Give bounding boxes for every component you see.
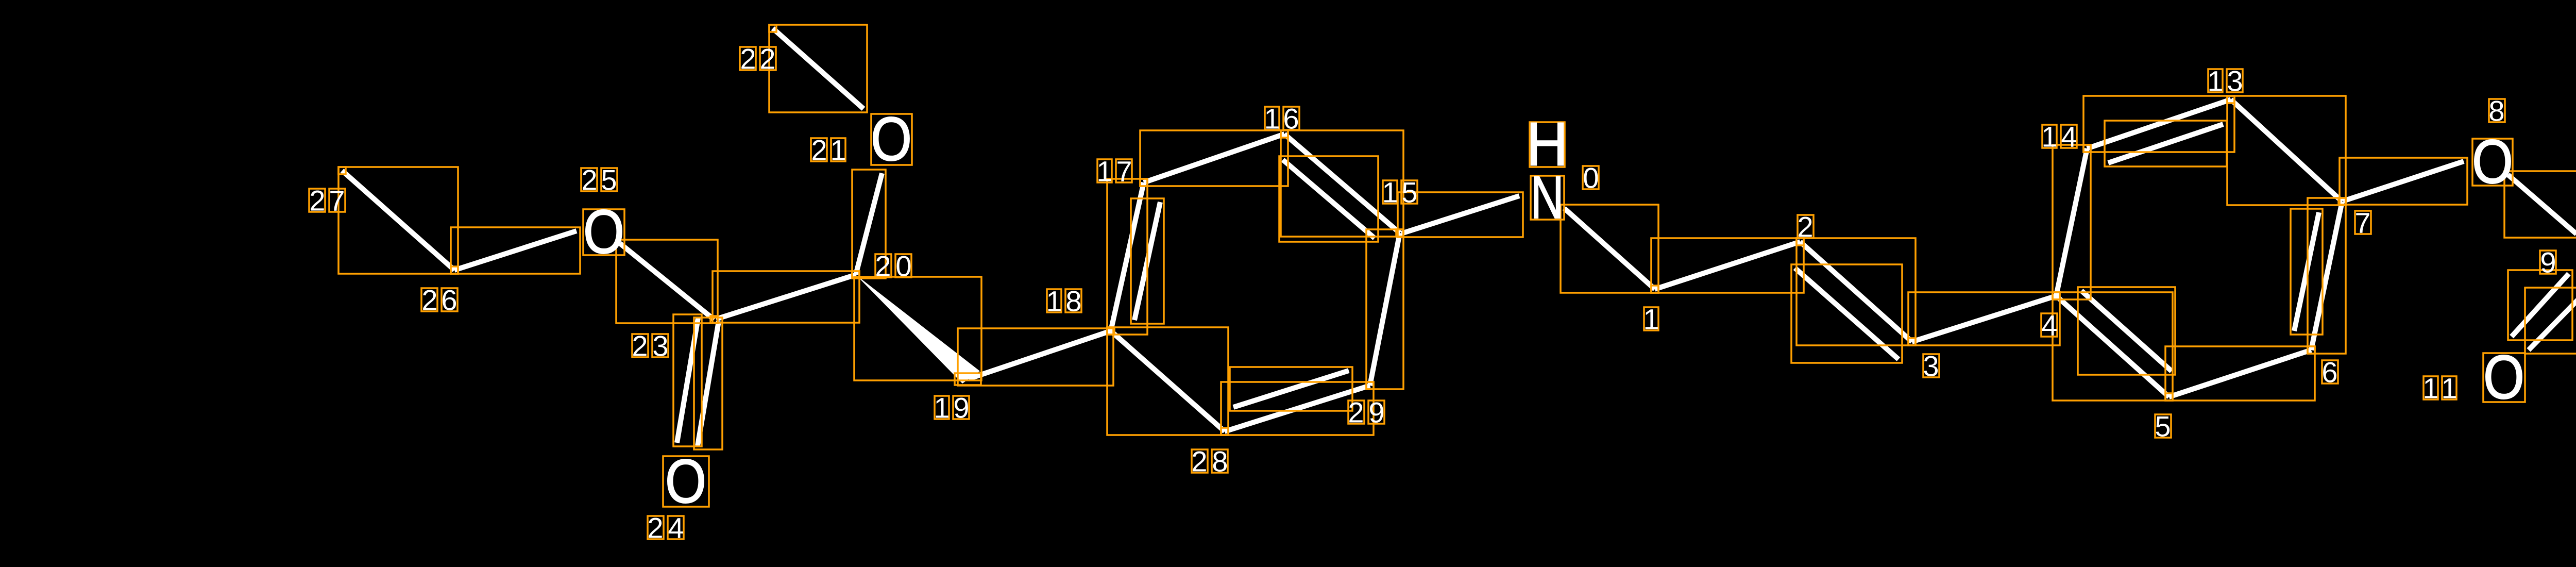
- bbox bond C19-C18: [958, 328, 1113, 386]
- bond C2=C3 line1: [1800, 242, 1912, 342]
- svg-text:O: O: [871, 105, 912, 174]
- bbox bond C15-N0: [1398, 192, 1523, 237]
- svg-text:4: 4: [668, 512, 684, 544]
- atom C29 marker: [1366, 382, 1374, 389]
- bond O25-C23: [620, 243, 714, 320]
- bbox bond C3-C4: [1908, 292, 2060, 345]
- atom O24: [663, 447, 709, 516]
- svg-text:2: 2: [632, 330, 648, 362]
- svg-text:0: 0: [895, 250, 911, 282]
- svg-text:5: 5: [2155, 410, 2171, 443]
- label 17: [1096, 155, 1132, 188]
- label 28: [1191, 445, 1228, 478]
- svg-text:6: 6: [1283, 103, 1299, 135]
- svg-text:1: 1: [2441, 372, 2457, 405]
- bbox bond C6-C5 ring2: [2165, 346, 2315, 401]
- svg-text:2: 2: [811, 134, 827, 166]
- bbox bond C20-C19 wedge: [854, 277, 981, 380]
- bond C15-C29 ring1: [1370, 233, 1400, 386]
- svg-text:1: 1: [1264, 103, 1280, 135]
- atom C4 marker: [2053, 292, 2060, 299]
- svg-text:O: O: [2472, 127, 2513, 196]
- bond N0-C1: [1564, 208, 1655, 289]
- label 3: [1923, 350, 1939, 382]
- label 25: [581, 164, 617, 196]
- svg-text:3: 3: [1923, 350, 1939, 382]
- svg-text:1: 1: [1382, 176, 1398, 209]
- atom O8: [2472, 127, 2513, 196]
- label 15: [1382, 176, 1417, 209]
- svg-text:2: 2: [581, 164, 597, 196]
- bbox bond C18-C17 ring1: [1107, 179, 1147, 335]
- atom C16 marker: [1281, 130, 1288, 138]
- bond C27-C26: [342, 171, 454, 270]
- bbox bond C17-C16 ring1: [1140, 130, 1288, 186]
- svg-text:9: 9: [1368, 396, 1384, 429]
- bbox bond C7-O8: [2340, 158, 2467, 205]
- bond C16-C15 inner: [1283, 160, 1375, 238]
- bbox bond C2=C3 line1: [1797, 238, 1916, 345]
- bond C19-C18: [969, 331, 1111, 379]
- bond C15-N0: [1401, 196, 1519, 234]
- bbox bond N0-C1: [1561, 205, 1658, 293]
- label 9: [2540, 246, 2556, 279]
- svg-text:4: 4: [2061, 121, 2077, 153]
- atom C18 marker: [1107, 327, 1114, 335]
- svg-text:1: 1: [1096, 155, 1112, 188]
- bbox bond C16-C15 inner: [1279, 156, 1378, 242]
- label 7: [2354, 207, 2371, 239]
- bond C13-C7 ring2: [2231, 99, 2342, 202]
- bbox bond C4-C14 ring2: [2053, 145, 2091, 299]
- bbox bond C7-C6 inner: [2291, 209, 2323, 335]
- bbox bond C26-O25: [451, 227, 580, 274]
- atom C2 marker: [1797, 238, 1804, 245]
- atom N0: [1531, 164, 1565, 231]
- label 4: [2041, 309, 2058, 342]
- bbox bond C27-C26: [338, 167, 458, 274]
- bond C6-C5 ring2: [2169, 350, 2311, 397]
- svg-text:6: 6: [441, 284, 457, 316]
- bond C1-C2: [1655, 242, 1800, 289]
- atom C27 marker: [338, 167, 346, 174]
- bond C16-C15 ring1: [1284, 134, 1400, 233]
- svg-text:6: 6: [2321, 356, 2337, 389]
- svg-text:2: 2: [740, 43, 756, 75]
- label 20: [875, 250, 911, 282]
- svg-text:3: 3: [2227, 65, 2243, 97]
- svg-text:2: 2: [1348, 396, 1364, 429]
- bond S9=O11 line2: [2529, 291, 2576, 350]
- svg-text:2: 2: [1797, 211, 1813, 243]
- atom C19 marker: [955, 373, 981, 385]
- bond C20-O21: [856, 173, 882, 275]
- bbox bond C18-C17 inner: [1131, 198, 1164, 324]
- svg-text:5: 5: [1401, 176, 1417, 209]
- bond C7-C6 ring2: [2311, 202, 2342, 350]
- svg-text:O: O: [583, 197, 624, 266]
- svg-text:2: 2: [647, 512, 663, 544]
- atom C26 marker: [451, 266, 458, 274]
- bbox bond C28-C18 ring1: [1107, 327, 1228, 435]
- label 29: [1348, 396, 1384, 429]
- svg-text:1: 1: [934, 392, 950, 424]
- svg-text:8: 8: [1065, 285, 1081, 318]
- bond C14-C13 inner: [2108, 124, 2223, 163]
- label 26: [421, 284, 457, 316]
- label 11: [2422, 372, 2457, 405]
- svg-text:8: 8: [1212, 445, 1228, 478]
- bond C18-C17 inner: [1134, 202, 1160, 320]
- bond C5-C4 ring2: [2056, 296, 2169, 397]
- atom C1 marker: [1651, 286, 1658, 293]
- label 13: [2207, 65, 2243, 97]
- label 19: [934, 392, 969, 424]
- bond C5-C4 inner: [2081, 291, 2172, 371]
- bond S9=O11 line1: [2512, 274, 2569, 337]
- atom C7 marker: [2338, 198, 2346, 205]
- label 24: [647, 512, 684, 544]
- bond C4-C14 ring2: [2056, 148, 2087, 296]
- atom C14 marker: [2083, 145, 2091, 152]
- atom C20 marker: [852, 271, 859, 278]
- label 27: [309, 185, 345, 217]
- bond C28-C18 ring1: [1111, 331, 1225, 431]
- label 8: [2488, 95, 2505, 127]
- bbox bond S9=O11 line2: [2525, 288, 2576, 354]
- svg-text:2: 2: [1191, 445, 1207, 478]
- bond C26-O25: [454, 231, 577, 270]
- bond C29-C28 inner: [1233, 371, 1349, 407]
- bbox bond C14-C13 ring2: [2083, 96, 2234, 152]
- label 1: [1643, 303, 1659, 336]
- svg-text:2: 2: [421, 284, 437, 316]
- atom C3 marker: [1908, 338, 1916, 345]
- svg-text:1: 1: [1046, 285, 1062, 318]
- atom O25: [583, 197, 624, 266]
- bbox bond S9=O11 line1: [2508, 270, 2572, 340]
- label 2: [1797, 211, 1814, 243]
- bbox bond O8-S9: [2504, 171, 2576, 238]
- label 16: [1264, 103, 1299, 135]
- svg-text:1: 1: [1643, 303, 1659, 336]
- bbox bond C29-C28 ring1: [1221, 382, 1374, 435]
- atom O11: [2483, 343, 2525, 412]
- svg-text:7: 7: [2354, 207, 2370, 239]
- bbox bond C20-O21: [852, 170, 886, 278]
- label 6: [2321, 356, 2338, 389]
- bond C2=C3 line2: [1795, 268, 1899, 359]
- label 21: [811, 134, 846, 166]
- label 23: [632, 330, 668, 362]
- svg-text:O: O: [2483, 343, 2524, 412]
- bbox bond C5-C4 inner: [2078, 287, 2175, 375]
- atom C5 marker: [2165, 393, 2173, 401]
- svg-text:0: 0: [1583, 162, 1599, 194]
- svg-text:2: 2: [875, 250, 891, 282]
- atom C17 marker: [1140, 179, 1147, 186]
- bbox bond C16-C15 ring1: [1281, 130, 1403, 237]
- bond C7-C6 inner: [2294, 212, 2319, 331]
- svg-text:7: 7: [329, 185, 345, 217]
- atom O21: [871, 105, 912, 174]
- svg-text:4: 4: [2041, 309, 2057, 342]
- svg-text:1: 1: [2041, 121, 2057, 153]
- bond C7-O8: [2343, 161, 2464, 201]
- svg-text:3: 3: [652, 330, 668, 362]
- svg-text:N: N: [1531, 164, 1564, 231]
- label 5: [2155, 410, 2171, 443]
- label 0: [1583, 162, 1599, 194]
- bbox bond C7-C6 ring2: [2308, 198, 2346, 354]
- label 18: [1046, 285, 1081, 318]
- bond C3-C4: [1912, 296, 2056, 342]
- bbox bond C5-C4 ring2: [2053, 292, 2173, 401]
- svg-text:9: 9: [2540, 246, 2556, 279]
- svg-text:9: 9: [953, 392, 969, 424]
- bbox bond C23=O24 line1: [694, 318, 722, 449]
- bond C20-C19 wedge: [856, 275, 980, 383]
- bbox bond O25-C23: [616, 240, 718, 323]
- bbox bond C29-C28 inner: [1230, 367, 1352, 411]
- svg-text:7: 7: [1116, 155, 1132, 188]
- bbox bond C15-C29 ring1: [1366, 229, 1403, 389]
- bond C17-C16 ring1: [1144, 134, 1284, 182]
- svg-text:1: 1: [2207, 65, 2223, 97]
- bbox bond C23=O24 line2: [673, 314, 702, 446]
- bbox bond C2=C3 line2: [1791, 264, 1902, 363]
- bond C23-C20: [716, 275, 856, 319]
- bbox bond C23-C20: [713, 271, 859, 323]
- svg-text:1: 1: [830, 134, 846, 166]
- bond C22-O21: [773, 28, 863, 109]
- svg-text:O: O: [665, 447, 706, 516]
- bbox bond C13-C7 ring2: [2227, 96, 2346, 205]
- svg-text:1: 1: [2422, 372, 2438, 405]
- bond C23=O24 line2: [677, 318, 698, 443]
- bbox bond C14-C13 inner: [2105, 121, 2227, 166]
- svg-text:2: 2: [759, 43, 775, 75]
- atom C13 marker: [2227, 96, 2234, 103]
- atom C6 marker: [2308, 346, 2315, 354]
- bond C23=O24 line1: [698, 321, 719, 446]
- label 22: [740, 43, 776, 75]
- svg-text:8: 8: [2488, 95, 2504, 127]
- bond C29-C28 ring1: [1225, 386, 1370, 431]
- atom C15 marker: [1396, 229, 1403, 237]
- atom C28 marker: [1221, 428, 1228, 435]
- svg-text:5: 5: [601, 164, 617, 196]
- atom C22 marker: [769, 25, 776, 32]
- bbox bond C1-C2: [1651, 238, 1804, 293]
- atom C23 marker: [710, 316, 718, 323]
- bond C18-C17 ring1: [1111, 182, 1144, 331]
- svg-text:2: 2: [309, 185, 325, 217]
- bond O8-S9: [2508, 175, 2576, 234]
- bond C14-C13 ring2: [2087, 99, 2231, 148]
- bbox bond C22-O21: [769, 25, 867, 112]
- label 14: [2041, 121, 2077, 153]
- atom N0 H: [1527, 110, 1568, 179]
